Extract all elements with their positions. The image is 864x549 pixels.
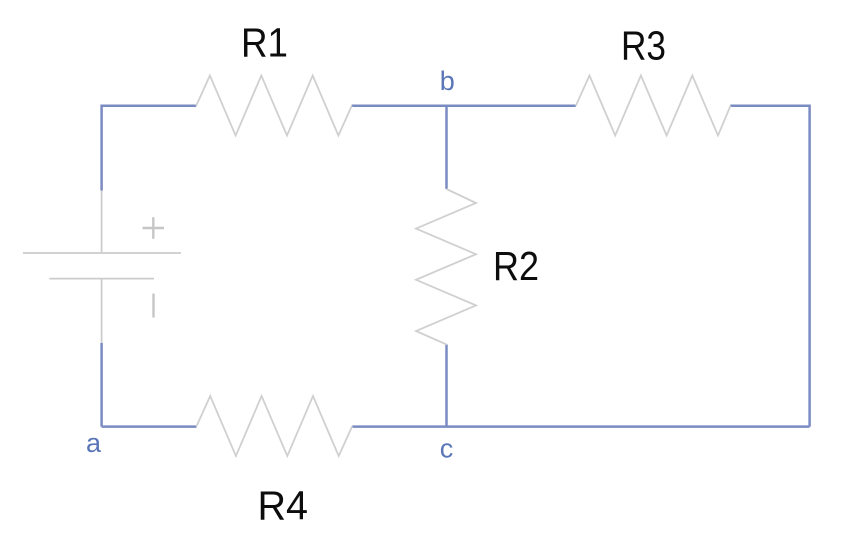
battery minus sign (rotated, vertical bar): [152, 294, 154, 318]
battery B1 (cell, leads and plates): [23, 191, 181, 344]
resistor R1 label: [241, 20, 288, 66]
resistor R2 zigzag (vertical): [416, 189, 476, 345]
resistor R4 label: [258, 483, 309, 529]
node b label: [440, 66, 455, 96]
resistor R3 zigzag: [576, 76, 731, 136]
resistor R4 zigzag: [197, 396, 353, 456]
wire from battery + terminal up and right to R1 (node to top-left corner): [102, 106, 197, 191]
svg-text:c: c: [440, 433, 454, 463]
resistor R3 label: [621, 23, 666, 69]
svg-text:R4: R4: [258, 483, 309, 529]
svg-text:a: a: [86, 428, 102, 458]
node a label: [86, 428, 102, 458]
wire bottom right: R4 right end through node c to bottom-right corner: [352, 425, 809, 428]
wire top middle: R1 right end through node b to R3 left end: [352, 105, 576, 108]
resistor R2 label: [493, 243, 539, 289]
wire R2 bottom down to node c: [445, 345, 448, 427]
wire from battery - terminal down to node a: [100, 343, 103, 427]
battery plus sign: [143, 217, 165, 239]
svg-text:b: b: [440, 66, 455, 96]
svg-text:R1: R1: [241, 20, 288, 66]
svg-text:R3: R3: [621, 23, 666, 69]
svg-text:R2: R2: [493, 243, 539, 289]
wire top right: R3 right end to right edge, down right side: [730, 106, 809, 427]
wire node b down to R2 top: [445, 106, 448, 189]
resistor R1 zigzag: [196, 76, 352, 136]
wire bottom left: node a to R4 left end: [102, 425, 197, 428]
node c label: [440, 433, 454, 463]
